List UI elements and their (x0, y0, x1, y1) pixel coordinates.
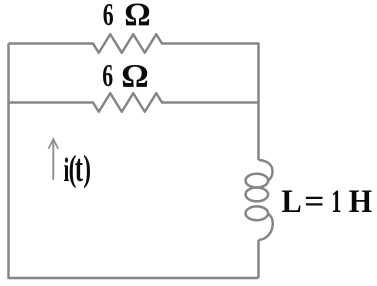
svg-text:Ω: Ω (121, 58, 148, 94)
svg-text:1: 1 (331, 183, 341, 219)
svg-text:H: H (349, 183, 372, 219)
svg-text:t: t (75, 147, 83, 190)
svg-text:6: 6 (102, 58, 113, 93)
svg-text:=: = (304, 184, 324, 219)
svg-text:L: L (281, 183, 301, 219)
svg-text:Ω: Ω (124, 0, 150, 33)
svg-text:): ) (83, 147, 91, 189)
svg-text:6: 6 (103, 0, 114, 32)
